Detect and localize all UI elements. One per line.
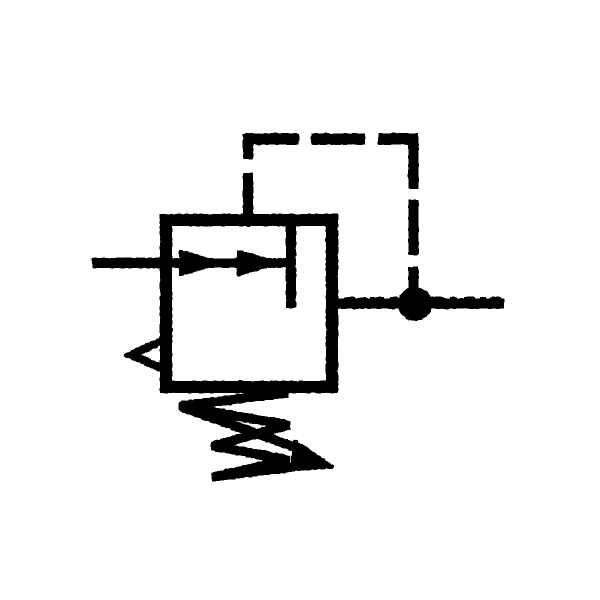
pilot line dash H (right vertical to junction) <box>410 268 418 290</box>
pilot line dash B (vertical, corner) <box>244 136 252 158</box>
spring (zigzag below body) <box>180 393 301 477</box>
wire: scan speckles above output line <box>345 298 500 301</box>
adjustment arrowhead <box>291 441 333 470</box>
valve body box <box>166 220 332 387</box>
wire: flow path shaft inside body <box>170 260 289 267</box>
adjustment arrow shaft through spring <box>182 407 300 449</box>
pilot line dash G (right vertical middle) <box>410 201 418 254</box>
pilot line dash A (vertical at box top) <box>244 174 252 219</box>
wire: inner seat line <box>287 220 295 307</box>
wire: output port line (right) <box>335 300 503 308</box>
drain arrowhead (open, on left edge) <box>131 339 166 370</box>
flow arrowhead 2 <box>238 251 278 275</box>
flow arrowhead 1 <box>180 251 220 275</box>
pilot line dash E (horizontal to right corner) <box>379 135 417 144</box>
pilot line dash C (horizontal from corner) <box>244 135 298 144</box>
pilot line dash F (right vertical top) <box>410 139 418 188</box>
node: junction dot on output line <box>400 289 431 320</box>
wire: input port line (left) <box>93 259 170 267</box>
pilot line dash D (horizontal middle) <box>312 135 364 144</box>
